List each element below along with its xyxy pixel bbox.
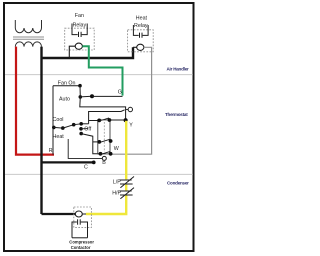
wire black C terminal [42,161,94,163]
contactor contact loop [72,219,88,238]
wire Heat feed to changeover rows [81,134,100,154]
svg-text:Off: Off [84,126,91,132]
transformer T1 [13,20,44,47]
border frame [4,3,194,251]
wire row1 to Y node [109,119,125,121]
wire black to relays [42,47,134,58]
svg-text:C: C [84,165,88,171]
svg-text:Relay: Relay [134,23,148,29]
wire green G: fan relay coil to G node [82,46,122,95]
fan relay coil U1 [69,43,82,58]
label Compressor Contactor [69,240,94,251]
svg-text:R: R [49,148,53,154]
branch to changeover box row1 [89,120,100,122]
heat relay contact [133,25,148,38]
svg-text:B: B [102,160,106,166]
row2 nodes and arm [97,139,112,144]
heat relay K2 dashed box [128,30,154,52]
compressor contactor dashed box [74,207,92,228]
linkage dashed [103,122,105,152]
svg-text:H/P: H/P [112,190,121,196]
wire red R: transformer left lead down then right to R terminal [16,47,54,155]
divider air-handler/thermostat [5,74,193,76]
svg-text:Condenser: Condenser [167,180,189,185]
branch to row2 [93,141,100,143]
thermostat fan switch: Fan On feed wire [53,85,80,87]
node Off column middle [79,127,83,131]
svg-text:L/P: L/P [113,179,121,185]
node Off column top [79,122,83,126]
node Cool contact [72,123,76,127]
fan relay contact [72,24,87,38]
row3 nodes and arm [99,151,113,155]
node mode pivot [61,126,65,130]
node mode common on rail [52,126,56,130]
mode switch arm to Cool [63,125,74,128]
wire B feed from below Heat [68,139,102,158]
terminal B circle [102,156,106,160]
svg-text:W: W [114,146,119,152]
divider thermostat/condenser [5,173,193,175]
node Y junction [124,118,128,122]
svg-text:Heat: Heat [136,16,148,22]
fan switch arm [80,95,92,98]
O stub to vertical [126,109,129,111]
svg-text:Heat: Heat [53,134,65,140]
node C terminal [92,161,96,165]
node Off column bottom [79,132,83,136]
svg-text:Fan On: Fan On [58,80,76,86]
svg-text:G: G [118,90,122,96]
wire black C: transformer right lead down, branches right at y58, down to contactor [40,47,42,214]
wire fan common to G [92,95,123,97]
fan relay label [73,13,87,29]
svg-text:Thermostat: Thermostat [165,112,188,117]
fan relay K1 dashed box [65,28,95,50]
wire bus: Fan On/Auto dots down to O/Y feed line A [80,86,126,120]
left rail R from fan switch to R terminal [52,86,54,155]
node Fan On [78,84,82,88]
svg-text:Contactor: Contactor [71,245,91,250]
svg-text:Compressor: Compressor [69,240,94,245]
node Auto [79,95,83,99]
heat relay label [134,16,148,30]
heat relay coil U2 [133,44,144,50]
svg-text:Fan: Fan [75,13,84,19]
stub Off middle [81,128,88,130]
svg-text:Relay: Relay [73,23,87,29]
stub top contact to bus [81,123,88,125]
wire Cool contact to Off column [74,123,82,126]
terminal O circle [128,107,132,111]
mode switch: line B from Off column to O [89,110,125,124]
row1 nodes and arm [97,118,111,122]
svg-text:Cool: Cool [53,117,64,123]
wire yellow Y: from Y node down through pressure switches to contactor [86,121,126,214]
node fan common [90,94,94,98]
pressure switch L/P [120,177,135,188]
stub rail to pivot [54,126,63,129]
svg-text:Auto: Auto [59,96,70,102]
wire black to compressor contactor coil [42,213,76,215]
pressure switch H/P [120,188,135,199]
changeover switch box [98,120,110,154]
svg-text:Y: Y [129,122,133,128]
wire white W: heat relay coil to W row of mode switch [111,47,152,154]
svg-text:Air Handler: Air Handler [167,66,190,71]
contactor coil [75,211,82,217]
contactor coil right lead [82,213,86,215]
